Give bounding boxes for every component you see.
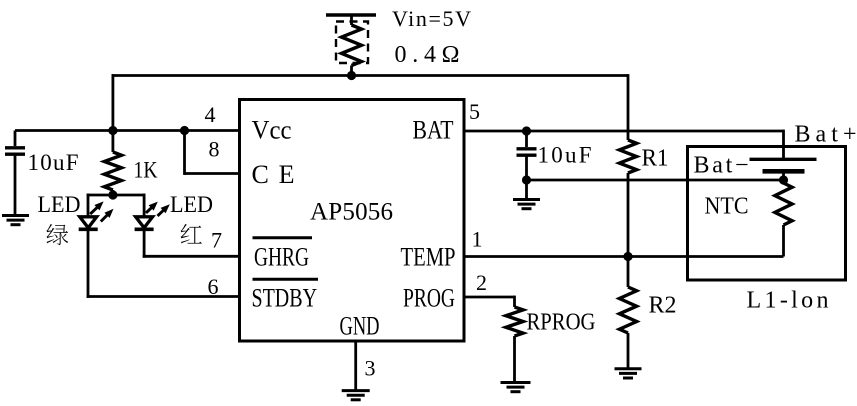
resistor RPROG lead [513,296,516,307]
resistor R3 1K lead [112,131,115,153]
svg-text:Bat−: Bat− [694,153,749,179]
svg-text:Bat+: Bat+ [795,122,857,148]
battery BT1 minus plate [763,169,805,174]
node battery-NTC junction [779,175,788,184]
svg-text:1: 1 [472,227,483,252]
svg-text:GHRG: GHRG [254,243,309,272]
svg-text:LED: LED [38,192,81,217]
svg-text:6: 6 [208,274,219,299]
LED D1 arrows [90,206,98,214]
capacitor C1 lead lower [14,154,17,215]
capacitor C2 lead lower [525,155,528,180]
wire GHRG pin 7 [143,255,240,258]
svg-text:R2: R2 [649,293,677,319]
wire [350,15,353,25]
node C2-gnd junction [522,175,531,184]
wire R2 down [627,333,630,369]
resistor R3 1K lead lower [112,190,115,195]
ground for C1 [2,214,29,217]
svg-text:4: 4 [205,102,216,127]
node CE branch junction [180,126,189,135]
wire battery minus down [782,171,785,183]
node TEMP junction [623,252,632,261]
wire top rail drop right [627,74,630,140]
wire BAT drop to battery [782,130,785,160]
svg-text:7: 7 [211,228,222,253]
wire left drop [112,74,115,130]
node BAT-cap junction [522,126,531,135]
resistor R3 1K [104,152,121,190]
wire RPROG down [513,336,516,383]
svg-text:Vin=5V: Vin=5V [392,6,471,31]
battery box [688,147,846,281]
svg-text:1K: 1K [134,158,158,183]
wire gnd rail to battery minus [527,179,784,182]
wire BAT [464,130,784,133]
ground for RPROG [501,381,531,384]
wire red LED anode [143,194,146,217]
wire GND pin [354,341,357,391]
wire top rail [112,74,629,77]
wire R1 to TEMP [627,173,630,258]
wire [350,66,353,76]
op-amp U1 AP5056 box [240,100,465,342]
svg-text:R1: R1 [642,146,669,172]
capacitor C2 plates [517,147,537,150]
svg-text:AP5056: AP5056 [310,199,393,226]
Vin terminal bar [326,13,376,17]
svg-text:5: 5 [469,99,480,124]
wire NTC down [782,225,785,257]
resistor R1 [619,140,636,173]
svg-text:LED: LED [170,192,213,217]
capacitor C1 lead [14,131,17,147]
resistor dashed box [336,22,368,64]
wire TEMP [464,255,784,258]
svg-text:10uF: 10uF [538,143,592,168]
svg-text:TEMP: TEMP [401,243,456,272]
svg-text:GND: GND [340,312,380,341]
wire CE drop [183,131,186,175]
wire CE to pin 8 [185,172,240,175]
resistor RPROG [506,307,523,336]
node Vin-rail junction [347,71,356,80]
wire STDBY pin 6 [87,295,240,298]
pin label GHRG overline [253,236,313,239]
svg-text:NTC: NTC [705,194,749,220]
ground for GND pin [342,389,370,392]
svg-text:Vcc: Vcc [252,116,292,145]
svg-text:0.4Ω: 0.4Ω [395,42,460,68]
wire red LED cathode [143,229,146,257]
wire green LED cathode [87,229,90,298]
ground for R2 [615,367,642,370]
svg-text:2: 2 [476,270,487,295]
svg-text:PROG: PROG [403,284,455,313]
LED D2 arrows [146,206,153,213]
capacitor C2 lead [525,131,528,147]
ground for C2 [513,198,540,201]
wire LED rail [87,194,146,197]
svg-text:RPROG: RPROG [527,310,596,336]
LED D2 red [136,217,153,228]
svg-text:10uF: 10uF [28,150,79,175]
resistor 0.4ohm [342,25,362,66]
wire green LED anode [87,194,90,217]
svg-text:STDBY: STDBY [252,284,318,313]
thermistor NTC [775,183,792,225]
svg-text:BAT: BAT [413,116,454,145]
wire C2 down [525,180,528,200]
label green CJK [46,224,68,245]
node LED branch junction [108,190,117,199]
label red CJK [181,224,202,244]
svg-text:3: 3 [365,356,376,381]
svg-text:L1-lon: L1-lon [747,288,829,314]
resistor R2 [619,287,636,333]
LED D1 green [80,217,97,228]
resistor R2 lead [627,257,630,288]
svg-text:8: 8 [209,137,220,162]
wire PROG [464,296,515,299]
capacitor C1 plates [5,146,25,149]
pin label STDBY overline [253,278,319,281]
node rail-cap junction [108,126,117,135]
battery BT1 plus plate [750,158,817,161]
wire Vcc rail [15,129,240,132]
